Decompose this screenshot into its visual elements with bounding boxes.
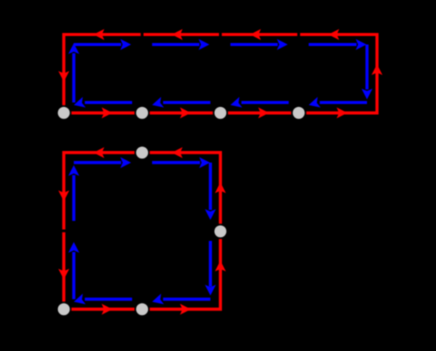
- red arrow left square top 1: [172, 147, 183, 158]
- blue arrow right top 3: [277, 39, 288, 50]
- red arrow right v4-corner: [337, 107, 348, 118]
- wire red square top-left corner: [64, 153, 135, 230]
- blue arrow left into v3: [229, 97, 242, 110]
- wire blue top segment 2: [152, 43, 199, 46]
- blue arrow right at square top-right corner: [199, 157, 210, 168]
- wire red edge v4 to top-right corner and top: [300, 35, 377, 113]
- node top-center (square figure): [136, 147, 148, 159]
- wire blue right edge down: [365, 45, 368, 90]
- blue arrow up square left 1: [68, 242, 79, 253]
- red arrow up square right 1: [215, 261, 226, 272]
- wire blue square left lower: [72, 252, 75, 299]
- wire red square bottom-right corner: [150, 239, 221, 309]
- node bottom-center (square figure): [136, 303, 148, 315]
- red arrow left top 4: [94, 29, 105, 40]
- blue arrow left into bottom-left node: [72, 294, 85, 307]
- wire blue edge v3-v2: [163, 101, 210, 104]
- red arrow right square bottom 2: [180, 304, 191, 315]
- blue arrow down square right 2: [205, 285, 216, 296]
- blue arrow up square left 2: [68, 165, 79, 176]
- wire red edge v3-v4: [228, 111, 291, 114]
- node bottom-left (square figure): [58, 303, 70, 315]
- wire blue edge corner-v4: [320, 101, 367, 104]
- wire blue edge v4-v3: [241, 101, 288, 104]
- red arrow right v2-v3: [180, 107, 191, 118]
- wire red top segment 2: [222, 33, 297, 36]
- red arrow down square left 1: [58, 190, 69, 201]
- wire blue left edge up: [72, 53, 75, 102]
- red arrow up right edge: [372, 64, 383, 75]
- blue arrow left into v1: [72, 97, 85, 110]
- blue arrow left into bottom-center node: [151, 294, 164, 307]
- red arrow down square left 2: [58, 269, 69, 280]
- blue arrow right at top-right corner: [356, 39, 367, 50]
- wire blue top segment 1: [74, 43, 121, 46]
- blue arrow right into top node: [120, 157, 131, 168]
- node v2 (top figure): [136, 107, 148, 119]
- node v1 (top figure): [58, 107, 70, 119]
- red arrow left top 3: [172, 29, 183, 40]
- wire red square left lower: [62, 232, 65, 301]
- blue arrow up left edge: [68, 43, 79, 54]
- red arrow left top 1: [328, 29, 339, 40]
- red arrow left square top 2: [94, 147, 105, 158]
- blue arrow down into right node: [205, 209, 216, 220]
- wire red top segment 3: [144, 33, 220, 36]
- wire blue edge v2-v1: [85, 101, 132, 104]
- node v4 (top figure): [293, 107, 305, 119]
- wire blue top segment 4: [309, 43, 357, 46]
- red arrow left top 2: [250, 29, 261, 40]
- node right-center (square figure): [214, 225, 226, 237]
- wire red square bottom left segment: [71, 308, 134, 311]
- wire red edge v2-v3: [150, 111, 213, 114]
- red arrow right square bottom 1: [102, 304, 113, 315]
- blue arrow left into v4: [307, 97, 320, 110]
- wire blue square top 1: [74, 161, 121, 164]
- blue arrow right top 1: [120, 39, 131, 50]
- wire red edge v1-v2 (top figure bottom): [71, 111, 134, 114]
- wire red square top-right corner: [150, 153, 221, 224]
- red arrow up square right 2: [215, 182, 226, 193]
- wire blue square right upper: [209, 163, 212, 210]
- wire blue top segment 3: [230, 43, 277, 46]
- wire blue square bottom 1: [163, 298, 210, 301]
- wire blue square top 2: [152, 161, 200, 164]
- node v3 (top figure): [214, 107, 226, 119]
- blue arrow down right edge: [362, 89, 373, 100]
- wire blue square bottom 2: [85, 298, 132, 301]
- blue arrow left into v2: [151, 97, 164, 110]
- red arrow down left edge: [58, 71, 69, 82]
- wire blue square left upper: [72, 175, 75, 221]
- red arrow right v3-v4: [258, 107, 269, 118]
- blue arrow right top 2: [199, 39, 210, 50]
- wire blue square right lower: [209, 241, 212, 287]
- wire red top-left corner down to v1: [64, 35, 141, 106]
- red arrow right v1-v2: [102, 107, 113, 118]
